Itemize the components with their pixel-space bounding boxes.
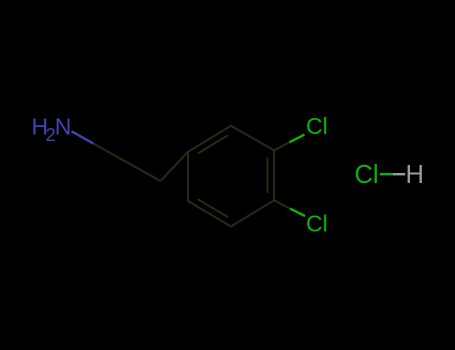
bond C8-C1 (chain to ring) [161,152,189,181]
bond C4-Cl (green half) [290,209,305,216]
bond C4-Cl (carbon half) [274,200,290,208]
benzene ring outline [188,126,274,227]
svg-text:H: H [406,161,424,189]
double bond C3=C4 inner line [267,158,269,193]
bond Cl-H (green half) [380,173,393,175]
bond C3-Cl (green half) [290,135,305,143]
double bond C5=C6 inner line [198,199,228,217]
bond Cl-H (gray half) [393,173,406,175]
svg-text:Cl: Cl [355,161,379,189]
bond C3-Cl (carbon half) [274,142,290,150]
label H2N (amine nitrogen) [32,114,72,145]
svg-text:Cl: Cl [306,113,328,139]
bond N-C7 / C7-C8 (carbon half, collinear chain) [94,144,161,181]
svg-text:Cl: Cl [306,211,328,237]
svg-text:N: N [55,114,72,140]
double bond C1=C2 inner line [198,135,228,153]
bond N-C7 (blue half) [72,131,94,143]
